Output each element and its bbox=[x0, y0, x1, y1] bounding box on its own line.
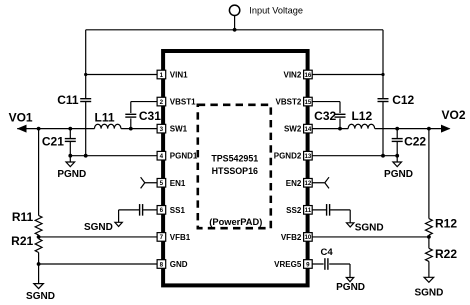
wire PGND1 bbox=[70, 155, 161, 157]
wire: SGND stub bbox=[38, 264, 40, 284]
svg-text:VIN1: VIN1 bbox=[170, 71, 188, 80]
node VO1/C21 tap bbox=[68, 127, 72, 131]
svg-text:R12: R12 bbox=[435, 217, 457, 231]
pin 8 GND bbox=[157, 260, 166, 269]
wire: C21 upper lead bbox=[69, 129, 71, 139]
svg-text:VBST2: VBST2 bbox=[276, 98, 302, 107]
svg-text:PGND: PGND bbox=[57, 169, 86, 180]
node VO2/C22 tap bbox=[395, 127, 399, 131]
wire VFB1 bbox=[39, 236, 162, 238]
wire: PGND stub right bbox=[396, 156, 398, 162]
svg-text:5: 5 bbox=[160, 180, 164, 187]
node C12/PGND2 bbox=[381, 154, 385, 158]
svg-text:SW1: SW1 bbox=[170, 125, 188, 134]
svg-text:R22: R22 bbox=[435, 247, 457, 261]
wire SS2 bbox=[308, 209, 326, 211]
ground PGND (right) bbox=[393, 162, 402, 167]
svg-text:TPS542951: TPS542951 bbox=[211, 153, 258, 163]
capacitor SS2 soft-start bbox=[326, 204, 328, 216]
svg-text:Input Voltage: Input Voltage bbox=[249, 6, 303, 16]
svg-text:12: 12 bbox=[304, 180, 311, 187]
wire: VO2 to R12 bbox=[428, 129, 430, 219]
node: input rail junction bbox=[233, 28, 237, 32]
node VIN2 tap bbox=[381, 73, 384, 76]
wire GND pin8 bbox=[39, 263, 162, 265]
wire: C12 rail lower bbox=[382, 102, 384, 156]
svg-text:6: 6 bbox=[160, 207, 164, 214]
svg-text:8: 8 bbox=[160, 261, 164, 268]
svg-text:C4: C4 bbox=[321, 247, 334, 258]
svg-text:13: 13 bbox=[304, 153, 311, 160]
wire PGND2 bbox=[308, 155, 397, 157]
node C31/SW1 bbox=[129, 127, 133, 131]
svg-text:SS1: SS1 bbox=[170, 206, 186, 215]
svg-text:3: 3 bbox=[160, 126, 164, 133]
svg-text:SGND: SGND bbox=[84, 222, 113, 233]
arrow VO1 output bbox=[17, 125, 27, 133]
wire: C12 rail upper bbox=[382, 75, 384, 99]
svg-text:11: 11 bbox=[305, 207, 312, 214]
wire VREG5 bbox=[308, 263, 324, 265]
PowerPAD dashed outline bbox=[198, 105, 271, 228]
ground SGND (right divider) bbox=[424, 277, 434, 282]
wire VIN1 bbox=[86, 74, 162, 76]
node C11/PGND1 bbox=[84, 154, 88, 158]
svg-text:15: 15 bbox=[304, 99, 311, 106]
svg-text:PGND: PGND bbox=[384, 169, 413, 180]
resistor R22 bbox=[426, 248, 433, 261]
inductor L12 bbox=[348, 124, 374, 128]
wire: C21 lower lead bbox=[69, 141, 71, 155]
node C32/SW2 bbox=[338, 127, 342, 131]
wire VO2/SW2 bbox=[308, 128, 348, 130]
ground SGND (SS1) bbox=[115, 222, 122, 226]
pin 14 SW2 bbox=[304, 124, 313, 133]
svg-text:9: 9 bbox=[306, 261, 310, 268]
svg-text:EN2: EN2 bbox=[286, 179, 302, 188]
svg-text:C21: C21 bbox=[42, 134, 64, 148]
pin 9 VREG5 bbox=[304, 260, 313, 269]
svg-text:SGND: SGND bbox=[414, 288, 443, 299]
wire: C4 down bbox=[349, 264, 351, 278]
svg-text:VREG5: VREG5 bbox=[274, 260, 302, 269]
svg-text:VO2: VO2 bbox=[442, 108, 466, 122]
svg-text:C12: C12 bbox=[392, 93, 414, 107]
capacitor C4 bbox=[324, 258, 326, 270]
capacitor SS1 soft-start bbox=[139, 204, 141, 216]
wire: R21 to GND wire bbox=[38, 253, 40, 264]
node VO2/R12 tap bbox=[427, 127, 431, 131]
svg-text:VBST1: VBST1 bbox=[170, 98, 196, 107]
wire: C11 rail lower bbox=[85, 102, 87, 156]
ground PGND (left) bbox=[66, 162, 75, 167]
node C21/PGND1 bbox=[68, 154, 72, 158]
wire: top input rail bbox=[86, 29, 383, 31]
pin 11 SS2 bbox=[304, 206, 313, 215]
capacitor C31 bbox=[125, 113, 136, 115]
svg-text:GND: GND bbox=[170, 260, 188, 269]
capacitor C32 bbox=[335, 113, 346, 115]
svg-text:C11: C11 bbox=[57, 93, 79, 107]
svg-text:PGND: PGND bbox=[336, 282, 365, 293]
wire: C22 upper lead bbox=[396, 129, 398, 139]
ground SGND (SS2) bbox=[347, 223, 354, 227]
svg-text:1: 1 bbox=[160, 72, 164, 79]
pin 16 VIN2 bbox=[304, 70, 313, 79]
connector EN2 stub bbox=[325, 177, 329, 188]
svg-text:SGND: SGND bbox=[355, 223, 384, 234]
wire VO1/SW1 bbox=[17, 128, 94, 130]
capacitor C12 bbox=[378, 98, 389, 100]
svg-text:4: 4 bbox=[160, 153, 164, 160]
svg-text:C22: C22 bbox=[404, 134, 426, 148]
wire: C11 rail upper bbox=[85, 75, 87, 99]
svg-text:7: 7 bbox=[160, 234, 164, 241]
node VFB2/R12 bbox=[427, 235, 431, 239]
pin 7 VFB1 bbox=[157, 233, 166, 242]
resistor R11 bbox=[35, 216, 42, 236]
svg-text:16: 16 bbox=[304, 72, 311, 79]
wire EN1 bbox=[145, 182, 162, 184]
svg-text:SW2: SW2 bbox=[284, 125, 302, 134]
svg-text:EN1: EN1 bbox=[170, 179, 186, 188]
input voltage terminal bbox=[229, 5, 239, 15]
node VFB1/R11 bbox=[37, 235, 41, 239]
capacitor C22 bbox=[392, 138, 403, 140]
svg-text:R11: R11 bbox=[12, 210, 34, 224]
wire: R12-R22 gap bbox=[428, 237, 430, 248]
node GND/R21 bbox=[37, 262, 41, 266]
wire VIN2 bbox=[308, 74, 383, 76]
svg-text:2: 2 bbox=[160, 99, 164, 106]
pin 5 EN1 bbox=[157, 178, 166, 187]
svg-text:VFB1: VFB1 bbox=[170, 233, 191, 242]
svg-text:C32: C32 bbox=[314, 109, 336, 123]
inductor L11 bbox=[95, 124, 121, 128]
resistor R21 bbox=[35, 239, 42, 253]
wire: terminal stub bbox=[234, 16, 236, 30]
wire: SS1 down bbox=[118, 210, 120, 222]
wire: right input drop bbox=[382, 30, 384, 75]
node VIN1 tap bbox=[84, 73, 87, 76]
capacitor C21 bbox=[65, 138, 76, 140]
svg-text:HTSSOP16: HTSSOP16 bbox=[212, 166, 258, 176]
op IC U1 TPS542951 body bbox=[163, 51, 308, 285]
wire EN2 bbox=[308, 182, 325, 184]
pin 4 PGND1 bbox=[157, 151, 166, 160]
pin 6 SS1 bbox=[157, 206, 166, 215]
wire VFB2 bbox=[308, 236, 429, 238]
svg-text:14: 14 bbox=[304, 126, 311, 133]
wire: PGND stub left bbox=[69, 156, 71, 162]
wire: R11-R21 gap bbox=[38, 235, 40, 239]
svg-text:SGND: SGND bbox=[26, 291, 55, 302]
svg-text:L12: L12 bbox=[351, 109, 372, 123]
svg-text:(PowerPAD): (PowerPAD) bbox=[209, 217, 262, 227]
node C22/PGND2 bbox=[395, 154, 399, 158]
svg-text:PGND2: PGND2 bbox=[274, 152, 302, 161]
pin 12 EN2 bbox=[304, 178, 313, 187]
resistor R12 bbox=[426, 219, 433, 235]
wire: SS2 down bbox=[349, 210, 351, 223]
svg-text:C31: C31 bbox=[139, 109, 161, 123]
wire: left input drop bbox=[85, 30, 87, 75]
pin 3 SW1 bbox=[157, 124, 166, 133]
wire: C31 to SW1 bbox=[130, 118, 132, 128]
svg-text:VO1: VO1 bbox=[9, 110, 33, 124]
svg-text:PGND1: PGND1 bbox=[170, 152, 198, 161]
pin 10 VFB2 bbox=[304, 233, 313, 242]
svg-text:R21: R21 bbox=[11, 234, 33, 248]
svg-text:L11: L11 bbox=[94, 111, 114, 125]
svg-text:10: 10 bbox=[304, 234, 311, 241]
svg-text:VIN2: VIN2 bbox=[284, 71, 302, 80]
wire: C22 lower lead bbox=[396, 141, 398, 155]
arrow VO2 output bbox=[441, 125, 451, 133]
capacitor C11 bbox=[80, 98, 91, 100]
svg-text:VFB2: VFB2 bbox=[281, 233, 302, 242]
connector EN1 stub bbox=[141, 177, 145, 188]
ground PGND (C4) bbox=[346, 278, 353, 282]
pin 1 VIN1 bbox=[157, 70, 166, 79]
wire: R22 to SGND bbox=[428, 261, 430, 277]
pin 2 VBST1 bbox=[157, 97, 166, 106]
wire: VO1 to R11 bbox=[38, 129, 40, 216]
wire: C32 to SW2 bbox=[339, 118, 341, 128]
svg-text:SS2: SS2 bbox=[286, 206, 302, 215]
wire VBST2 bbox=[308, 101, 340, 103]
pin 15 VBST2 bbox=[304, 97, 313, 106]
wire SS1 bbox=[143, 209, 161, 211]
pin 13 PGND2 bbox=[304, 151, 313, 160]
node VO1/R11 tap bbox=[37, 127, 41, 131]
wire VBST1 bbox=[131, 101, 162, 103]
ground SGND (left divider) bbox=[34, 284, 44, 289]
